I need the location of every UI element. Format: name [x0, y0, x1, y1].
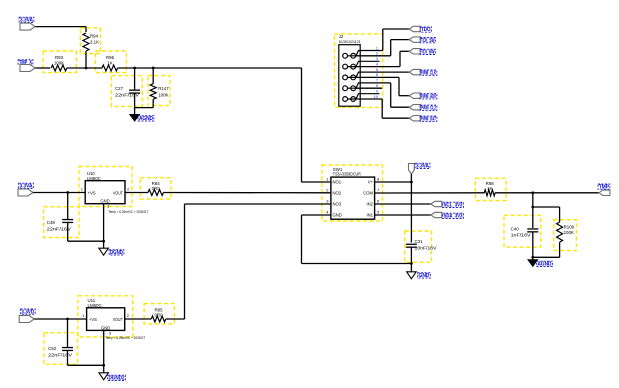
svg-text:1K: 1K — [107, 61, 112, 66]
svg-text:1K: 1K — [487, 186, 492, 191]
svg-text:IN2: IN2 — [366, 202, 373, 207]
svg-text:COM: COM — [363, 191, 373, 196]
svg-text:R147: R147 — [158, 86, 169, 91]
svg-text:VOUT: VOUT — [113, 317, 123, 322]
svg-text:2: 2 — [376, 52, 378, 56]
svg-text:3.1K: 3.1K — [90, 40, 99, 45]
svg-text:7: 7 — [376, 79, 378, 83]
svg-text:R109: R109 — [564, 225, 575, 230]
svg-text:V+: V+ — [368, 180, 374, 185]
svg-text:8: 8 — [376, 84, 378, 88]
svg-text:C27: C27 — [115, 86, 124, 91]
svg-text:3: 3 — [376, 57, 378, 61]
svg-text:GND: GND — [333, 213, 342, 218]
svg-text:J2: J2 — [339, 34, 344, 39]
svg-text:VOUT: VOUT — [113, 190, 123, 195]
svg-text:1: 1 — [376, 46, 378, 50]
svg-text:NO3: NO3 — [333, 202, 342, 207]
svg-text:R96: R96 — [106, 55, 115, 60]
svg-text:TS5A3359DCUR: TS5A3359DCUR — [333, 172, 361, 177]
svg-text:C52: C52 — [48, 346, 57, 351]
svg-text:0R0: 0R0 — [152, 186, 161, 191]
svg-text:100K: 100K — [158, 92, 168, 97]
svg-text:1nF/16V: 1nF/16V — [511, 233, 531, 238]
svg-text:10: 10 — [374, 95, 378, 99]
svg-text:100K: 100K — [564, 230, 574, 235]
svg-text:Temp = 6.25mV/C + 200DGT: Temp = 6.25mV/C + 200DGT — [108, 209, 148, 214]
svg-text:LM60C: LM60C — [87, 176, 101, 181]
svg-text:NO2: NO2 — [333, 191, 342, 196]
svg-text:+VS: +VS — [89, 317, 97, 322]
svg-text:22nF/16V: 22nF/16V — [115, 92, 139, 97]
svg-text:C48: C48 — [47, 220, 56, 225]
svg-text:61301021121: 61301021121 — [339, 40, 361, 44]
svg-text:22nF/16V: 22nF/16V — [47, 226, 71, 231]
svg-text:100K: 100K — [54, 61, 64, 66]
svg-text:4: 4 — [376, 62, 378, 66]
svg-text:C31: C31 — [415, 239, 424, 244]
svg-text:6: 6 — [376, 73, 378, 77]
svg-text:0R0: 0R0 — [154, 312, 163, 317]
svg-text:9: 9 — [376, 90, 378, 94]
svg-text:+VS: +VS — [88, 190, 96, 195]
svg-text:5: 5 — [376, 68, 378, 72]
svg-text:Temp = 6.25mV/C + 200DGT: Temp = 6.25mV/C + 200DGT — [105, 335, 145, 340]
svg-text:IN1: IN1 — [366, 213, 373, 218]
svg-text:NO1: NO1 — [333, 180, 342, 185]
svg-text:22nF/16V: 22nF/16V — [48, 353, 72, 358]
svg-text:R93: R93 — [55, 55, 64, 60]
svg-text:C40: C40 — [511, 227, 520, 232]
svg-text:10nF/16V: 10nF/16V — [415, 245, 437, 250]
svg-text:R94: R94 — [90, 34, 99, 39]
svg-text:LM60C: LM60C — [88, 303, 102, 308]
